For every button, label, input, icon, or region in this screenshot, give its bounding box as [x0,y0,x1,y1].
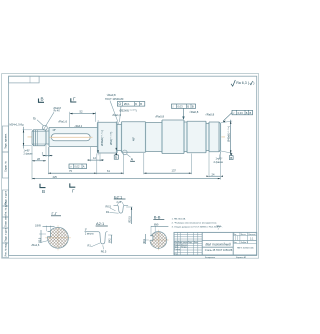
dim 24 right [208,152,210,177]
svg-text:Ø45к6(⁺⁰·⁰¹⁸): Ø45к6(⁺⁰·⁰¹⁸) [227,126,231,142]
svg-text:Ø52(⁺⁰·⁰³⁰): Ø52(⁺⁰·⁰³⁰) [109,132,113,145]
svg-text:2. *Размеры обеспечиваются инс: 2. *Размеры обеспечиваются инструментом. [172,223,218,225]
svg-text:): ) [253,81,254,85]
journal 1 [122,122,146,153]
svg-text:⌰: ⌰ [233,111,235,115]
52 dim above keyway [69,112,71,127]
svg-text:В: В [250,111,252,115]
svg-text:В: В [42,189,45,194]
svg-text:√Ra1,6: √Ra1,6 [112,113,121,117]
datum square В right [229,153,233,160]
svg-text:Листов 1: Листов 1 [241,242,248,244]
svg-text:Б2:1: Б2:1 [114,194,123,199]
thread end with chamfers [32,130,46,146]
svg-text:Масса: Масса [241,234,246,236]
svg-text:В: В [230,156,232,160]
svg-text:Т.контр.: Т.контр. [174,249,181,251]
svg-text:М24×1,5-8g: М24×1,5-8g [10,123,24,127]
middle part division [202,239,233,241]
svg-text:Б: Б [187,105,189,109]
svg-text:R0,5: R0,5 [101,250,107,254]
datum square Б (mid) [114,153,118,160]
svg-text:0,03: 0,03 [178,105,184,109]
svg-text:√Ra0,8: √Ra0,8 [205,113,214,117]
svg-text:√Ra0,8: √Ra0,8 [189,110,198,114]
svg-text:137: 137 [172,168,177,172]
groove 3 [184,122,187,152]
section 8 [187,121,206,152]
svg-text:ГОСТ 10549-80: ГОСТ 10549-80 [105,97,124,101]
svg-text:Б: Б [135,102,137,106]
svg-text:Б: Б [115,156,117,160]
depth dim left [39,233,46,235]
keyway section [49,128,98,147]
svg-text:10N9: 10N9 [35,225,41,228]
svg-text:2 места: 2 места [85,233,94,236]
keyway slot [50,134,93,141]
svg-text:R0,5: R0,5 [106,204,112,208]
svg-text:Петров: Петров [181,247,187,249]
rotated diameter texts inside shaft [100,126,231,146]
svg-text:52: 52 [80,109,84,113]
dim 12 [89,147,91,161]
right part [233,235,257,237]
svg-text:Б: Б [246,111,248,115]
Б detail balloon [43,125,48,130]
width dim above [150,226,152,236]
left margin rotated labels [5,133,8,257]
shaft silhouette fills [32,120,220,154]
hatched circle [48,227,69,248]
groove width dim 3 [45,145,47,157]
svg-text:2 фаски: 2 фаски [214,160,224,164]
top-left stamp rectangle (70x14) [9,76,39,83]
svg-text:2 45°: 2 45° [117,201,123,204]
left margin stamp cells [2,126,8,258]
keyway width dim [46,226,48,232]
svg-text:В: В [140,102,142,106]
svg-text:Ø45к6(⁺⁰·⁰¹⁸): Ø45к6(⁺⁰·⁰¹⁸) [100,130,104,146]
section flag В bottom [40,184,46,194]
svg-text:Лист: Лист [234,242,238,244]
vertical dim extension lines mid [98,120,116,155]
svg-text:0,03: 0,03 [238,111,244,115]
svg-text:Ra 6,3 (: Ra 6,3 ( [236,81,250,85]
svg-text:√Ra1,6: √Ra1,6 [58,120,67,124]
svg-text:Подп. и дата: Подп. и дата [5,227,8,242]
svg-text:НВГУ. 303519.005: НВГУ. 303519.005 [237,247,254,249]
svg-text:А: А [83,165,85,169]
svg-text:√Ra1,6: √Ra1,6 [31,243,40,247]
svg-text:√Ra3,2: √Ra3,2 [74,125,82,128]
svg-text:Формат А2: Формат А2 [236,256,247,259]
sheet inner frame [9,76,257,255]
svg-text:38,5: 38,5 [143,238,146,243]
svg-text:Справ. №: Справ. № [5,161,8,172]
centerline [28,136,226,138]
verticals left part [177,232,179,255]
right journal vertical dim [221,121,232,123]
groove [46,131,49,145]
svg-text:Сталь 45 ГОСТ 1050-88: Сталь 45 ГОСТ 1050-88 [205,249,233,252]
svg-text:Копировал: Копировал [205,257,216,259]
svg-text:Подп.: Подп. [188,242,193,244]
svg-text:√Ra0,8: √Ra0,8 [53,106,62,110]
center cross [48,227,69,248]
svg-text:⌭: ⌭ [70,165,72,169]
svg-text:Ø42: Ø42 [109,238,112,243]
feature control frame 3 [223,110,253,122]
svg-text:Перв. примен.: Перв. примен. [5,133,8,149]
svg-text:425: 425 [53,175,58,179]
section flag В top [39,97,45,103]
dim 28 thread [31,146,33,162]
svg-text:В: В [192,105,194,109]
svg-text:Утв.: Утв. [174,254,178,256]
svg-text:15°: 15° [52,129,56,132]
svg-text:48*: 48* [132,137,136,141]
svg-text:3. Общие допуски по ГОСТ 30893: 3. Общие допуски по ГОСТ 30893.1: Н14, h… [172,227,221,229]
horizontals left part [174,234,202,236]
corner roughness symbol Ra 6,3 [231,80,254,86]
svg-text:1. НВ 230±1В.: 1. НВ 230±1В. [172,218,187,220]
feature control frame 2 [172,104,196,119]
section 6 [146,122,163,153]
svg-text:Инв. № дубл.: Инв. № дубл. [5,201,8,216]
svg-text:2: 2 [218,228,219,230]
svg-text:Rz 40: Rz 40 [54,111,61,113]
svg-text:3*: 3* [85,229,87,232]
svg-text:Дата: Дата [194,242,198,244]
groove 4 [206,121,209,152]
svg-text:Ø52h9(⁻⁰·⁰⁷⁴): Ø52h9(⁻⁰·⁰⁷⁴) [120,108,137,112]
svg-text:А2:1: А2:1 [96,221,105,226]
overall dim 425 [31,162,33,180]
svg-text:Лит.: Лит. [234,234,238,236]
right journal with chamfer [209,122,220,152]
groove 2 [117,122,122,153]
big collar [162,120,184,154]
dim 61 [123,153,125,174]
svg-text:Г-Г: Г-Г [52,211,58,216]
svg-text:R1: R1 [88,243,92,247]
feature control frame 1 [117,102,145,122]
A balloon + label [122,150,127,155]
thread dim M24 left [10,123,34,156]
svg-text:2 фаски: 2 фаски [24,152,34,155]
svg-text:Ø20,5: Ø20,5 [129,216,132,223]
dim 75 [47,147,49,174]
section flag Г bottom [70,183,76,193]
sheet outer border [2,74,259,259]
feature control frame 4 [69,164,87,169]
keyway notch [46,232,51,237]
svg-text:0,02: 0,02 [74,165,80,169]
svg-text:Масштаб: Масштаб [248,234,255,236]
svg-text:√Ra0,8: √Ra0,8 [155,114,164,118]
svg-text:√Ra0,8: √Ra0,8 [107,93,116,97]
section flag Г top [71,96,77,102]
bottom microtext [205,256,247,259]
svg-text:8N9: 8N9 [154,224,159,227]
svg-text:В: В [41,97,44,102]
dim 137 [143,153,145,174]
svg-text:Инв. № подл.: Инв. № подл. [5,241,8,256]
svg-text:⌰: ⌰ [172,105,174,109]
left tab dim [144,239,149,241]
svg-text:Взам. инв.: Взам. инв. [5,215,8,227]
cyan glow on step verticals [49,121,220,154]
shaft outline [32,120,220,154]
svg-text:В-В: В-В [154,215,161,220]
svg-text:Вал тихоходный: Вал тихоходный [206,243,231,247]
svg-text:Ø0,1: Ø0,1 [124,102,130,106]
svg-text:R1: R1 [106,210,110,214]
step 3 [98,122,118,153]
svg-text:33,5: 33,5 [38,237,41,242]
